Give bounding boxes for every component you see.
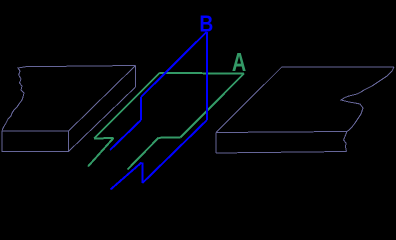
right plate: front face left vertical edge xyxy=(215,133,217,154)
svg-text:A: A xyxy=(232,47,246,76)
right plate: top face back edge xyxy=(282,66,394,68)
right plate: front face right broken edge xyxy=(344,132,348,152)
loop A right break tear xyxy=(128,138,159,170)
loop A left side diagonal xyxy=(94,73,160,139)
loop A bottom edge right segment xyxy=(159,136,181,139)
loop B left vertical upper part xyxy=(140,97,142,120)
loop A right side diagonal xyxy=(181,74,245,138)
loop A top edge xyxy=(160,72,245,75)
left plate: end face back vertical edge xyxy=(135,66,137,88)
right plate: top face front edge xyxy=(216,132,347,133)
loop B right vertical side xyxy=(206,32,208,120)
loop B left vertical lower part xyxy=(141,163,143,184)
left plate: top face right edge (diagonal) xyxy=(69,66,136,132)
right plate: front face bottom edge xyxy=(216,152,347,154)
loop B top diagonal xyxy=(141,32,207,97)
svg-text:B: B xyxy=(199,11,213,37)
left plate: top face front edge xyxy=(2,130,69,132)
left plate: left broken edge squiggle xyxy=(2,67,26,131)
right plate: right broken edge squiggle xyxy=(341,67,394,132)
loop B upper break tear xyxy=(110,120,141,150)
loop A bottom edge left segment xyxy=(94,137,114,140)
left plate: top face back edge xyxy=(26,66,136,67)
left plate: end face bottom edge (diagonal) xyxy=(69,87,136,152)
loop A left break tear xyxy=(88,138,114,167)
loop B bottom diagonal xyxy=(143,120,208,183)
loop B lower break tear xyxy=(111,163,142,190)
left plate: front face xyxy=(2,131,69,152)
right plate: top face left edge (diagonal) xyxy=(216,67,282,133)
